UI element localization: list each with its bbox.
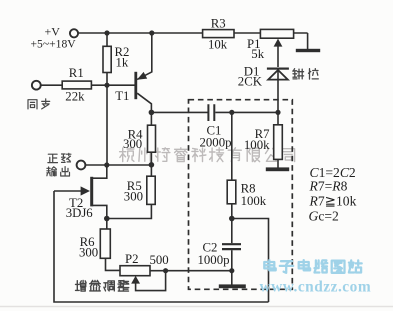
node A junction R1/R2/base [104, 83, 109, 88]
svg-text:2000p: 2000p [200, 136, 232, 150]
svg-text:100k: 100k [244, 138, 270, 152]
svg-text:+5~+18V: +5~+18V [31, 38, 77, 51]
wire P2 wiper loop [136, 271, 166, 291]
wire C2 bottom to ground [231, 250, 233, 284]
faint scan line bottom [0, 306, 393, 308]
svg-text:1000p: 1000p [198, 253, 230, 267]
svg-text:www.cndzz.com: www.cndzz.com [260, 279, 372, 296]
junction R8/C2/feedback [229, 216, 235, 222]
svg-text:500: 500 [150, 253, 169, 267]
resistor R8 [227, 180, 236, 204]
svg-text:100k: 100k [241, 194, 267, 208]
transistor T1 emitter lead [137, 33, 152, 79]
wire R8 column [231, 112, 233, 218]
junction wiper/track [163, 268, 168, 273]
svg-text:1k: 1k [116, 56, 129, 70]
potentiometer P2 body [120, 266, 150, 276]
dashed feedback network box [189, 100, 293, 290]
wire +V top rail [79, 32, 308, 34]
label clamp (qianwei) [293, 69, 318, 79]
resistor R5 [147, 176, 155, 204]
wire R1 row [41, 84, 107, 86]
svg-text:Gc=2: Gc=2 [309, 208, 340, 223]
wire T2 drain lead [93, 165, 107, 178]
junction T2 source/R5/R6 [104, 216, 110, 222]
ground P1 right terminal [296, 49, 320, 52]
resistor R6 [100, 229, 110, 258]
svg-text:R1: R1 [69, 66, 84, 80]
terminal sync input [32, 81, 41, 90]
resistor R3 [203, 30, 234, 38]
capacitor C1 [208, 104, 214, 121]
potentiometer P2 wiper arrow [131, 276, 140, 284]
svg-text:R7=R8: R7=R8 [309, 179, 348, 194]
svg-text:300: 300 [79, 246, 98, 260]
label gain adjust (zengyi tiaozheng) [76, 280, 129, 291]
resistor R4 [148, 125, 156, 152]
potentiometer P1 body [260, 29, 293, 38]
junction D1/R7 [275, 110, 280, 115]
wire P1 wiper to D1 [277, 46, 279, 67]
svg-text:300: 300 [123, 137, 142, 151]
ground below R7 [266, 167, 289, 171]
wire collector to C1 [151, 111, 207, 113]
label output (shuchu) [47, 167, 70, 176]
junction R4/R5 [149, 162, 155, 168]
junction rail/T1 emitter [149, 30, 154, 35]
wire C1 to R8 node [215, 111, 232, 113]
wire R5 column [107, 165, 152, 219]
wire feedback jog right [232, 219, 269, 303]
label sync (tongbu) [28, 99, 50, 109]
capacitor C2 [222, 244, 241, 249]
resistor R1 [62, 81, 91, 89]
svg-text:300: 300 [124, 189, 143, 203]
wire R7 column [277, 112, 279, 167]
transistor T2 gate arrow [81, 186, 90, 195]
svg-text:10k: 10k [208, 38, 228, 52]
junction sine/drain [104, 162, 109, 167]
wire node A down to sine row [106, 85, 108, 165]
watermark blue site name [264, 260, 361, 273]
terminal sine output [77, 161, 86, 170]
junction C1/R8 [229, 110, 234, 115]
terminal +V [70, 29, 78, 37]
svg-text:R3: R3 [211, 17, 226, 31]
wire R2 column [106, 33, 108, 85]
resistor R7 [274, 125, 283, 160]
watermark gray company text [120, 148, 295, 162]
transistor T1 base bar [134, 72, 137, 99]
wire D1 anode down [277, 70, 279, 113]
ground below C2 [219, 284, 246, 288]
svg-text:R7≧10k: R7≧10k [309, 193, 357, 208]
svg-text:5k: 5k [251, 47, 264, 61]
junction T1 collector node [149, 110, 155, 116]
transistor T2 channel bar [90, 177, 93, 207]
wire R6 column [106, 219, 121, 271]
svg-text:T1: T1 [115, 89, 129, 103]
wire R8 node to R7 node [232, 111, 278, 113]
wire T2 gate [54, 190, 84, 192]
wire rail drop to ground [307, 33, 309, 50]
potentiometer P1 wiper arrow [274, 39, 283, 47]
svg-text:2CK: 2CK [238, 74, 263, 88]
label sine (zhengxian) [48, 153, 71, 162]
diode D1 triangle [268, 70, 288, 80]
transistor T1 emitter arrow [137, 72, 147, 80]
wire sine output row [86, 164, 152, 166]
wire T1 base [107, 84, 135, 86]
svg-text:3DJ6: 3DJ6 [66, 206, 94, 220]
wire P2 track to C2 [150, 270, 232, 272]
wire T2 source lead [93, 205, 107, 218]
svg-text:P2: P2 [125, 252, 139, 266]
wire R4 column [150, 112, 152, 164]
wire C2 top [231, 219, 233, 244]
resistor R2 [103, 46, 111, 72]
junction C2/P2 track [229, 268, 234, 273]
transistor T1 collector lead [137, 93, 151, 112]
diode D1 cathode bar [267, 68, 289, 70]
svg-text:22k: 22k [65, 90, 85, 104]
junction rail/R2 [104, 30, 109, 35]
svg-text:+V: +V [45, 25, 61, 39]
svg-text:C1=2C2: C1=2C2 [310, 165, 356, 180]
wire gate feedback rail [54, 191, 269, 302]
